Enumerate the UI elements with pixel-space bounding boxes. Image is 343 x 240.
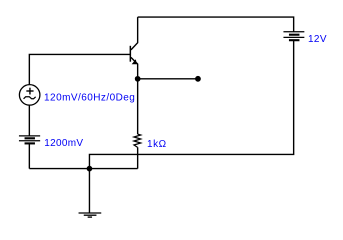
AC source V1 plus sign bbox=[26, 88, 33, 95]
wire: right rail down from V2, mid horizontal rail, riser to junction bbox=[89, 41, 293, 169]
node: junction dot bbox=[87, 166, 91, 170]
transistor Q1 base bar bbox=[129, 46, 131, 62]
svg-text:1200mV: 1200mV bbox=[44, 138, 83, 149]
transistor Q1 emitter arrow bbox=[132, 59, 137, 64]
wire: base wire to transistor and left drop to V1 bbox=[29, 54, 130, 84]
transistor Q1 collector lead bbox=[131, 17, 138, 50]
resistor R1 zigzag bbox=[134, 134, 141, 147]
transistor Q1 emitter lead bbox=[131, 57, 138, 78]
wire: V3 bottom lead to bottom rail bbox=[28, 144, 30, 169]
wire: bottom horizontal from V1 branch to resistor branch bbox=[29, 168, 137, 170]
battery V3 1200mV bbox=[19, 136, 40, 144]
wire: top rail from collector to V2 top lead bbox=[138, 17, 294, 31]
svg-text:12V: 12V bbox=[308, 34, 327, 45]
ground bbox=[79, 213, 102, 217]
AC source V1 sine tilde bbox=[24, 97, 36, 99]
svg-text:120mV/60Hz/0Deg: 120mV/60Hz/0Deg bbox=[44, 93, 135, 104]
svg-text:1kΩ: 1kΩ bbox=[147, 139, 167, 150]
wire: emitter stub to output terminal bbox=[138, 78, 198, 80]
node: emitter junction dot bbox=[136, 77, 140, 81]
AC source V1 circle bbox=[19, 85, 40, 106]
wire: emitter down to resistor R1 bbox=[137, 79, 139, 134]
wire: ground drop bbox=[88, 169, 90, 213]
wire: V1 to V3 bbox=[28, 105, 30, 136]
battery V2 12V bbox=[283, 32, 304, 41]
wire: resistor R1 to bottom rail bbox=[137, 147, 139, 168]
node: output terminal dot bbox=[196, 77, 200, 81]
